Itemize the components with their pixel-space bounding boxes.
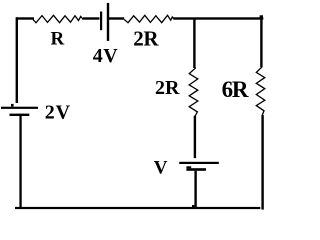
wire from 2R vertical down to battery V: [194, 116, 196, 158]
wire left vertical (top): [16, 17, 18, 103]
battery 4V: long plate: [107, 3, 109, 41]
node: top-right junction dot: [260, 15, 263, 18]
wire left vertical (below battery 2V): [19, 116, 21, 209]
resistor 2R vertical (zigzag): [189, 68, 198, 117]
svg-text:2V: 2V: [45, 101, 71, 123]
svg-text:2R: 2R: [155, 77, 180, 99]
battery 2V: long plate: [1, 107, 38, 109]
battery V: short plate tick: [186, 166, 191, 168]
wire bottom horizontal: [15, 207, 260, 209]
svg-text:6R: 6R: [222, 77, 249, 102]
resistor 6R vertical (zigzag): [256, 67, 265, 116]
wire from 2R to top-right corner: [174, 17, 264, 19]
svg-text:R: R: [51, 29, 65, 50]
wire between R and battery 4V: [83, 17, 100, 19]
svg-text:V: V: [154, 157, 168, 178]
wire top-left horizontal segment: [16, 17, 34, 19]
wire middle vertical (top to 2R): [193, 18, 195, 68]
svg-text:4V: 4V: [93, 45, 119, 67]
resistor R (zigzag): [33, 15, 83, 22]
wire between battery 4V and 2R: [109, 17, 124, 19]
battery V: long plate: [179, 162, 219, 164]
wire right vertical (below 6R to bottom): [261, 115, 263, 210]
svg-text:2R: 2R: [133, 26, 159, 50]
junction notch at bottom of battery V wire: [192, 205, 194, 207]
battery V: short plate: [186, 168, 206, 171]
battery 4V: short plate: [100, 12, 102, 31]
battery 2V: short plate: [10, 114, 30, 116]
wire right vertical (top to 6R): [260, 18, 262, 67]
wire below battery V: [194, 171, 196, 208]
resistor 2R horizontal (zigzag): [124, 15, 174, 22]
battery 2V: plus tick: [11, 104, 14, 107]
